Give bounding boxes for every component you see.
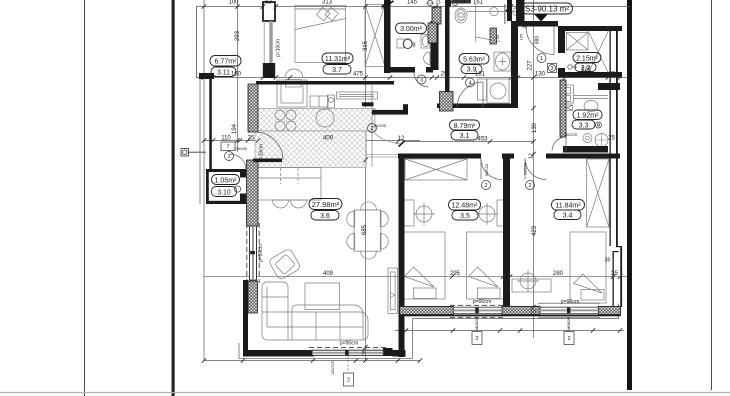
svg-text:423: 423 [532, 225, 538, 236]
mid dim line [196, 77, 627, 79]
svg-text:7: 7 [227, 144, 230, 150]
wardrobe 3.7 [365, 5, 385, 67]
svg-text:409: 409 [323, 271, 334, 277]
toilet 3.3 [584, 101, 598, 112]
wall living/bedroom3.5 [399, 158, 405, 357]
loggia bottom wall block [199, 73, 214, 79]
living bottom dim line [204, 360, 420, 362]
svg-text:25: 25 [441, 72, 448, 78]
living bottom window [312, 350, 383, 355]
boiler 3.3 [561, 85, 574, 103]
bath door [457, 82, 483, 108]
svg-text:280: 280 [553, 271, 564, 277]
svg-text:165: 165 [519, 33, 524, 40]
svg-text:125: 125 [581, 67, 592, 73]
center vertical dim line [365, 0, 367, 361]
svg-text:181: 181 [475, 72, 486, 78]
living bottom wall [243, 350, 314, 357]
svg-text:194: 194 [232, 123, 238, 134]
svg-text:2: 2 [484, 183, 487, 189]
svg-text:25: 25 [523, 23, 529, 29]
kitchen left wall hatch [248, 84, 258, 132]
svg-text:27.98m²: 27.98m² [312, 200, 340, 209]
svg-text:11.31m²: 11.31m² [325, 56, 351, 63]
svg-text:p=90cm: p=90cm [561, 299, 580, 305]
svg-text:2: 2 [567, 336, 570, 342]
svg-text:3.6: 3.6 [320, 213, 330, 220]
washbasin box 3.3 [561, 105, 573, 111]
svg-text:90: 90 [495, 34, 500, 39]
svg-text:130: 130 [535, 72, 546, 78]
svg-text:1.05m²: 1.05m² [215, 178, 237, 185]
living left wall bottom [243, 280, 248, 353]
small hatch block bath [490, 28, 497, 44]
small circle marker room 3.10 [234, 186, 240, 192]
toilet 3.9 [451, 0, 471, 4]
armchair [268, 248, 301, 280]
kitchen top wall [256, 81, 394, 85]
svg-text:90/220: 90/220 [523, 162, 528, 175]
svg-text:30/205: 30/205 [374, 123, 387, 128]
dimension tick marks [202, 4, 622, 362]
svg-text:3.1: 3.1 [460, 133, 470, 140]
entry top wall [516, 21, 558, 27]
sink 3.9 [494, 52, 511, 71]
kitchen door arc [255, 132, 283, 160]
bed room 3.4 [570, 232, 606, 303]
top dim circles [426, 0, 459, 5]
bedroom bottom dim line [395, 330, 624, 332]
bar counter [255, 168, 321, 201]
svg-text:5.63m²: 5.63m² [463, 57, 485, 64]
bath right wall [507, 0, 512, 21]
svg-text:25: 25 [609, 72, 616, 78]
svg-text:3.7: 3.7 [332, 67, 342, 74]
svg-text:35: 35 [362, 349, 368, 355]
svg-text:35: 35 [248, 136, 255, 142]
bedroom windows [450, 303, 600, 317]
svg-text:130: 130 [532, 122, 538, 133]
entry door [526, 27, 554, 55]
door tags [221, 40, 574, 387]
svg-text:10: 10 [530, 310, 536, 316]
svg-text:11.84m²: 11.84m² [555, 203, 581, 210]
WC3.8 door [414, 73, 429, 88]
top dim line [196, 6, 630, 8]
wall bedroom3.7 / WC3.8 [384, 0, 391, 73]
svg-text:315: 315 [363, 40, 369, 51]
burners [275, 110, 285, 120]
svg-text:35: 35 [604, 258, 610, 264]
svg-text:3: 3 [420, 78, 423, 84]
hatched pillar hall [440, 92, 454, 112]
shaft 3.2 [567, 33, 589, 51]
svg-text:1: 1 [540, 56, 543, 62]
svg-text:2: 2 [528, 183, 531, 189]
svg-text:100: 100 [228, 0, 239, 6]
svg-text:453: 453 [477, 137, 488, 143]
svg-text:409: 409 [323, 136, 334, 142]
wall entry/3.2 [558, 26, 565, 53]
3.2 top wall [558, 26, 622, 31]
hall dim line [404, 141, 533, 143]
svg-text:p=90cm: p=90cm [473, 299, 492, 305]
kitchen floor hatch [258, 108, 375, 131]
window tag leaders [348, 314, 569, 373]
svg-text:295: 295 [450, 271, 461, 277]
svg-text:3.5: 3.5 [460, 213, 470, 220]
vertical dimension texts [232, 23, 541, 355]
svg-text:3.00m²: 3.00m² [400, 26, 422, 33]
room 3.10 door arc [230, 154, 246, 170]
toilet 3.8 [397, 39, 404, 48]
bedroom3.5 door [481, 159, 502, 180]
svg-text:90/220: 90/220 [484, 163, 489, 176]
shower circle 3.3 [595, 134, 608, 147]
svg-text:6.77m²: 6.77m² [215, 59, 237, 66]
svg-text:35: 35 [266, 71, 273, 77]
bedrooms top wall [398, 154, 481, 159]
right vertical dim line [533, 0, 535, 338]
loggia left edge [196, 6, 198, 78]
coffee table [305, 283, 340, 310]
svg-text:2: 2 [475, 336, 478, 342]
parapet height texts [340, 299, 580, 347]
kitchen/living divider lines [365, 131, 367, 167]
svg-text:313: 313 [322, 0, 333, 5]
chair 3.4 [520, 273, 536, 289]
terrace sliding door [388, 268, 398, 314]
svg-text:2: 2 [347, 378, 350, 384]
svg-text:160: 160 [231, 72, 242, 78]
svg-text:227: 227 [528, 60, 534, 71]
svg-text:p=10cm: p=10cm [276, 39, 282, 57]
drain 3.3 [583, 134, 592, 143]
svg-text:3.4: 3.4 [563, 213, 573, 220]
svg-text:23: 23 [460, 0, 466, 5]
svg-text:25: 25 [608, 136, 615, 142]
room 3.10 walls [206, 169, 246, 172]
room label texts [215, 5, 599, 221]
3.2 bottom wall [558, 72, 622, 78]
bath tub divider [475, 4, 477, 42]
svg-text:160/220: 160/220 [331, 361, 335, 375]
living left wall hatch [247, 160, 259, 226]
nightstand1 [402, 200, 414, 226]
bedroom divider wall [503, 154, 510, 308]
bar stools [273, 200, 289, 208]
svg-text:685: 685 [362, 224, 368, 235]
left section bar [172, 0, 175, 396]
svg-text:35: 35 [611, 271, 618, 277]
svg-text:3: 3 [550, 66, 553, 72]
pillows 3.7 [316, 7, 329, 20]
loggia vertical dim line [237, 0, 239, 152]
wall WC3.8/bath3.9 [431, 21, 439, 70]
bold break marks [382, 1, 513, 147]
svg-text:8.79m²: 8.79m² [454, 123, 476, 130]
hall wardrobe [405, 159, 467, 180]
svg-text:R55: R55 [227, 168, 235, 173]
chair2 [479, 206, 495, 222]
svg-text:3.3: 3.3 [579, 123, 589, 130]
bed room 3.7 [295, 9, 346, 63]
hall opening arc [373, 131, 400, 144]
svg-text:p=90cm: p=90cm [340, 341, 359, 347]
kitchen sink [316, 109, 334, 127]
svg-text:880: 880 [535, 36, 541, 45]
room mid dim line [204, 276, 627, 278]
kitchen dim line [204, 140, 420, 142]
bed2 room 3.5 [467, 232, 510, 299]
washbasin 3.8 [421, 35, 430, 49]
entry triangle [535, 15, 548, 22]
dining table [354, 210, 381, 251]
svg-text:230/90: 230/90 [235, 146, 248, 151]
svg-text:83: 83 [265, 0, 272, 6]
bath left wall [445, 0, 450, 92]
door and window tag texts [227, 33, 578, 384]
left vertical dim line [203, 0, 205, 361]
svg-text:8: 8 [412, 43, 415, 49]
right section bar [627, 0, 632, 390]
wall loggia/bedroom divider [263, 2, 275, 21]
top stub [448, 0, 452, 7]
svg-text:23: 23 [435, 0, 441, 5]
left outer wall kitchen [209, 79, 212, 169]
svg-text:161: 161 [473, 0, 484, 6]
svg-text:110: 110 [221, 136, 231, 142]
desk 3.4 [512, 279, 551, 292]
WC3.8 bottom wall [388, 67, 415, 73]
WC3.3 door [552, 137, 566, 151]
bath3.9 bottom wall [437, 104, 517, 109]
bottom faint line [0, 392, 730, 394]
svg-text:80/220: 80/220 [565, 132, 578, 137]
3.3 bottom wall [563, 146, 608, 153]
wardrobe 3.4 [587, 159, 610, 227]
kitchen door leaf [253, 159, 282, 163]
svg-text:12.48m²: 12.48m² [452, 203, 478, 210]
chair1 [416, 206, 432, 222]
nightstand2 [497, 200, 509, 226]
right boundary line [711, 0, 713, 390]
bedroom bottom wall segments [399, 315, 621, 317]
dimension grid [196, 0, 630, 361]
svg-text:2: 2 [227, 154, 230, 160]
towel rail [467, 11, 520, 13]
left site boundary line [84, 0, 86, 396]
sofa [262, 282, 368, 340]
washing machine 3.9 [487, 79, 509, 103]
kitchen stove [277, 80, 307, 107]
left G marker [181, 149, 206, 157]
svg-text:145: 145 [407, 0, 418, 6]
wall left of 3.3 [560, 80, 566, 137]
outer offset lines below living [239, 358, 412, 360]
svg-text:3.10: 3.10 [217, 190, 231, 197]
bed1 room 3.5 [403, 232, 446, 299]
svg-text:1.92m²: 1.92m² [577, 113, 599, 120]
svg-text:S3-90.13 m²: S3-90.13 m² [525, 5, 569, 14]
svg-text:p=90cm: p=90cm [258, 244, 264, 262]
bedroom3.4 door [525, 159, 546, 180]
svg-text:p=10cm: p=10cm [259, 144, 265, 162]
living left window [250, 226, 257, 280]
svg-text:475: 475 [353, 72, 364, 78]
svg-text:2.15m²: 2.15m² [576, 56, 598, 63]
kitchen vent [337, 92, 378, 99]
kitchen right wall stub [362, 102, 374, 106]
svg-text:4: 4 [468, 81, 471, 87]
svg-text:293: 293 [235, 30, 241, 41]
right outer wall [610, 30, 611, 246]
svg-text:3.11: 3.11 [217, 70, 230, 77]
